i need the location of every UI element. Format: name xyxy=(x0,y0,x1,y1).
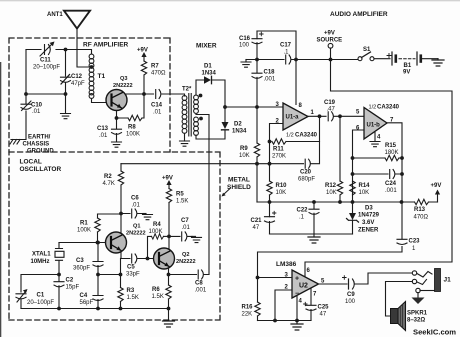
jack J1 body xyxy=(435,269,441,292)
chassis ground symbol xyxy=(10,140,21,145)
resistor R8 100K xyxy=(128,115,142,120)
wire antenna lead-in down to T1 tap xyxy=(77,29,92,68)
svg-text:360pF: 360pF xyxy=(73,266,90,272)
svg-text:C3: C3 xyxy=(76,258,84,264)
svg-text:S1: S1 xyxy=(363,47,371,53)
node T1 tap dot xyxy=(90,65,94,69)
svg-text:1.5K: 1.5K xyxy=(127,295,139,301)
svg-text:C9: C9 xyxy=(347,292,355,298)
svg-text:10K: 10K xyxy=(276,190,287,196)
svg-text:U2: U2 xyxy=(299,283,308,290)
svg-text:100K: 100K xyxy=(77,228,91,234)
wire detector output to U1-a pin3 xyxy=(225,106,283,108)
capacitor C3 360pF xyxy=(97,243,99,275)
transistor Q1 2N2222 xyxy=(106,232,127,253)
svg-text:3.6V: 3.6V xyxy=(362,220,374,226)
wire bottom return y234 xyxy=(270,233,353,235)
node junction dots RF left xyxy=(24,48,67,96)
svg-text:C16: C16 xyxy=(239,36,251,42)
svg-text:9V: 9V xyxy=(403,70,410,76)
resistor R14 10K xyxy=(350,181,355,195)
svg-text:D2: D2 xyxy=(234,122,242,128)
svg-text:D3: D3 xyxy=(365,206,373,212)
resistor R3 1.5K xyxy=(120,259,122,288)
svg-text:470Ω: 470Ω xyxy=(414,215,429,221)
capacitor C23 1 xyxy=(258,239,408,277)
inductor T1 winding xyxy=(89,54,94,98)
svg-text:+9V: +9V xyxy=(137,48,148,54)
op-amp U2 LM386 xyxy=(292,270,319,298)
resistor R15 180K xyxy=(353,157,386,159)
svg-text:C20: C20 xyxy=(300,170,312,176)
svg-text:+9V: +9V xyxy=(162,176,173,182)
svg-text:CHASSIS: CHASSIS xyxy=(23,142,50,148)
capacitor C11 (variable 20-100pF) xyxy=(40,42,55,57)
svg-text:C6: C6 xyxy=(131,196,139,202)
ground right of C7 xyxy=(192,235,196,237)
shield dashed box: local oscillator enclosure / metal shield xyxy=(9,152,220,320)
capacitor C24 .001 xyxy=(353,173,403,175)
resistor R6 1.5K xyxy=(166,285,171,299)
svg-text:10MHz: 10MHz xyxy=(31,259,50,265)
power +9V arrow above R7 xyxy=(137,48,148,62)
transistor Q3 2N2222 xyxy=(106,90,127,111)
svg-text:R2: R2 xyxy=(104,174,112,180)
ground jack sleeve xyxy=(412,293,425,304)
wire U1-a output pin1 xyxy=(308,115,364,117)
wire regulated bus y202 xyxy=(257,201,402,203)
capacitor C22 .1 xyxy=(309,202,319,234)
svg-text:OSCILLATOR: OSCILLATOR xyxy=(20,166,62,173)
zener diode D3 1N4729 xyxy=(347,202,359,234)
svg-text:20–100pF: 20–100pF xyxy=(27,300,54,306)
svg-text:ZENER: ZENER xyxy=(358,228,379,234)
svg-text:2N2222: 2N2222 xyxy=(126,231,146,237)
svg-text:.01: .01 xyxy=(32,109,41,115)
svg-text:C12: C12 xyxy=(71,74,83,80)
svg-text:.01: .01 xyxy=(153,110,162,116)
svg-text:Q3: Q3 xyxy=(120,76,127,82)
antenna ANT1 xyxy=(64,11,90,29)
svg-text:R1: R1 xyxy=(80,221,88,227)
svg-text:C11: C11 xyxy=(40,58,51,64)
svg-text:1/2: 1/2 xyxy=(369,105,377,111)
svg-text:2N2222: 2N2222 xyxy=(176,259,196,265)
wire U2 output pin5 xyxy=(319,283,348,285)
wire C3 bottom link to R3 xyxy=(98,274,121,276)
wire U2 pin2 xyxy=(275,290,292,321)
svg-text:R3: R3 xyxy=(127,288,135,294)
wire +9V rail y59.5 xyxy=(246,59,358,61)
resistor R5 1.5K xyxy=(166,189,171,203)
wire U1-b output pin7 down xyxy=(387,123,402,239)
svg-text:+: + xyxy=(295,276,299,283)
terminal +9V SOURCE xyxy=(317,31,343,60)
svg-text:SOURCE: SOURCE xyxy=(317,38,343,44)
capacitor C6 .01 branch xyxy=(121,213,143,215)
svg-text:100K: 100K xyxy=(149,229,163,235)
capacitor C1 (variable 20-100pF) xyxy=(16,275,59,309)
node T2 phasing dots xyxy=(199,94,203,121)
svg-text:1N34: 1N34 xyxy=(232,129,247,135)
resistor R4 100K bias xyxy=(148,236,152,258)
svg-text:2N2222: 2N2222 xyxy=(113,83,133,89)
svg-text:C5: C5 xyxy=(127,265,135,271)
crystal XTAL1 10MHz xyxy=(55,243,64,275)
transformer T2 core xyxy=(189,94,191,137)
svg-text:SHIELD: SHIELD xyxy=(227,184,251,191)
svg-text:100: 100 xyxy=(345,299,356,305)
capacitor C16 100 electrolytic xyxy=(252,31,263,60)
svg-text:C18: C18 xyxy=(264,70,276,76)
svg-text:8–32Ω: 8–32Ω xyxy=(407,318,425,324)
svg-text:LM386: LM386 xyxy=(276,261,297,268)
shield dashed box: RF amplifier enclosure xyxy=(9,38,170,320)
svg-text:.001: .001 xyxy=(264,77,276,83)
wire C16 top loop to pin8 drop xyxy=(257,31,296,105)
svg-text:C23: C23 xyxy=(409,239,421,245)
svg-text:10K: 10K xyxy=(326,190,337,196)
svg-text:R6: R6 xyxy=(152,287,160,293)
svg-text:1/2: 1/2 xyxy=(286,133,294,139)
capacitor C17 .1 xyxy=(286,55,291,64)
svg-text:1N34: 1N34 xyxy=(202,71,217,77)
wire top rail y49 C11 row xyxy=(26,50,92,55)
svg-text:R12: R12 xyxy=(325,183,337,189)
resistor R10 10K xyxy=(269,164,271,181)
svg-text:R4: R4 xyxy=(153,222,161,228)
svg-text:R8: R8 xyxy=(128,125,136,131)
svg-text:R14: R14 xyxy=(359,183,371,189)
diode D1 1N34 xyxy=(204,76,212,83)
wire C12 branch x65.5 xyxy=(65,50,67,114)
ground below C13 xyxy=(112,142,122,147)
wire left branch x26 down xyxy=(21,50,26,140)
svg-text:C8: C8 xyxy=(195,281,203,287)
wire y94 row xyxy=(26,93,66,95)
svg-text:.47: .47 xyxy=(327,107,336,113)
capacitor C18 .001 xyxy=(256,60,258,108)
svg-text:180K: 180K xyxy=(385,150,399,156)
wire U2 pin3 input xyxy=(258,277,293,279)
svg-text:C2: C2 xyxy=(66,278,74,284)
capacitor C5 33pF xyxy=(132,254,137,263)
svg-text:C17: C17 xyxy=(280,43,292,49)
wire LM386 bottom bus xyxy=(258,320,312,322)
wire LO bottom bus y308.5 xyxy=(21,308,169,310)
wire U1-b pin4 to ground xyxy=(374,133,376,142)
svg-text:T1: T1 xyxy=(98,73,106,80)
svg-text:R7: R7 xyxy=(151,64,159,70)
svg-text:.001: .001 xyxy=(195,288,207,294)
capacitor C9 100 electrolytic output xyxy=(343,276,355,289)
svg-text:270K: 270K xyxy=(272,154,286,160)
svg-text:CA3240: CA3240 xyxy=(295,133,318,139)
wire T2 secondary top to D1 xyxy=(196,80,204,95)
capacitor C14 xyxy=(156,90,161,99)
svg-text:D1: D1 xyxy=(204,64,212,70)
svg-text:47pF: 47pF xyxy=(71,81,85,87)
ground below C12 xyxy=(61,114,71,119)
resistor R16 22K xyxy=(257,278,259,303)
svg-text:R9: R9 xyxy=(240,146,248,152)
wire Q3 emitter node xyxy=(117,94,145,118)
svg-text:B1: B1 xyxy=(404,63,412,69)
resistor R1 100K xyxy=(95,218,100,232)
resistor R2 4.7K xyxy=(120,164,122,171)
svg-text:AUDIO AMPLIFIER: AUDIO AMPLIFIER xyxy=(330,11,388,18)
speaker SPKR1 xyxy=(391,302,406,331)
svg-text:C10: C10 xyxy=(31,103,43,109)
wire U2 pin4 xyxy=(296,296,298,321)
svg-text:47: 47 xyxy=(253,225,260,231)
svg-text:.1: .1 xyxy=(284,50,290,56)
capacitor C19 .47 xyxy=(328,112,333,121)
svg-text:.001: .001 xyxy=(385,188,397,194)
wire R1 top branch xyxy=(98,214,122,218)
svg-text:10K: 10K xyxy=(359,190,370,196)
capacitor C21 47 electrolytic xyxy=(265,202,276,234)
wire C9 to jack tip xyxy=(355,273,413,284)
ground below C22 xyxy=(313,234,315,237)
transistor Q2 2N2222 xyxy=(154,248,175,269)
capacitor C8 .001 output coupling xyxy=(169,274,210,276)
wire Q2 collector xyxy=(168,236,170,248)
ground T2 primary xyxy=(180,141,190,146)
svg-text:+9V: +9V xyxy=(324,31,335,37)
wire jack ring to speaker xyxy=(386,282,413,317)
capacitor C10 xyxy=(21,104,31,109)
svg-text:1N4729: 1N4729 xyxy=(358,213,380,219)
capacitor C4 56pF xyxy=(97,275,99,309)
svg-text:R11: R11 xyxy=(273,147,284,153)
svg-text:R15: R15 xyxy=(385,143,397,149)
svg-text:C25: C25 xyxy=(318,305,330,311)
svg-text:R5: R5 xyxy=(176,192,184,198)
svg-text:C13: C13 xyxy=(97,126,109,132)
resistor R12 10K xyxy=(339,116,341,181)
svg-text:.01: .01 xyxy=(132,203,141,209)
ground battery negative xyxy=(432,60,444,66)
wire T2 center tap to LO injection line xyxy=(196,115,209,275)
svg-text:METAL: METAL xyxy=(228,177,250,184)
svg-text:+9V: +9V xyxy=(431,183,442,189)
wire Q1 emitter row y258.5 xyxy=(121,251,154,259)
svg-text:20–100pF: 20–100pF xyxy=(33,65,60,71)
power +9V arrow above R5 xyxy=(162,176,173,189)
svg-text:C1: C1 xyxy=(37,293,45,299)
svg-text:C4: C4 xyxy=(80,293,88,299)
capacitor C13 xyxy=(116,118,118,142)
power +9V arrow right xyxy=(431,183,442,202)
svg-text:56pF: 56pF xyxy=(80,300,94,306)
battery B1 9V xyxy=(387,52,438,65)
svg-text:Q2: Q2 xyxy=(182,252,189,258)
capacitor C25 47 bypass xyxy=(304,288,316,321)
scan top edge artifact xyxy=(0,0,460,2)
svg-text:U1-b: U1-b xyxy=(367,123,381,129)
wire U1-a pin2 xyxy=(270,124,284,164)
svg-text:C19: C19 xyxy=(324,100,336,106)
label METAL SHIELD with arrow xyxy=(222,177,252,197)
svg-text:22K: 22K xyxy=(242,312,253,318)
svg-text:.01: .01 xyxy=(99,133,108,139)
svg-text:U1-a: U1-a xyxy=(286,115,300,121)
switch S1 xyxy=(358,47,374,61)
svg-text:15pF: 15pF xyxy=(66,285,80,291)
ground right of C6 xyxy=(143,213,146,215)
ground at C16 xyxy=(245,60,247,63)
capacitor C12 47pF xyxy=(61,77,71,82)
svg-text:RF AMPLIFIER: RF AMPLIFIER xyxy=(83,42,129,49)
svg-text:CA3240: CA3240 xyxy=(377,105,400,111)
svg-text:C21: C21 xyxy=(251,218,263,224)
wire Q3 collector row y94 to C14 xyxy=(126,94,185,96)
svg-text:C14: C14 xyxy=(151,103,163,109)
svg-text:ANT1: ANT1 xyxy=(47,12,63,18)
svg-text:470Ω: 470Ω xyxy=(151,71,166,77)
svg-text:T2*: T2* xyxy=(182,87,192,93)
transformer T2 secondary winding (two halves) xyxy=(194,95,199,135)
svg-text:C24: C24 xyxy=(385,181,397,187)
svg-text:C7: C7 xyxy=(181,218,189,224)
resistor R11 270K feedback xyxy=(272,139,286,144)
svg-text:SPKR1: SPKR1 xyxy=(407,311,428,317)
op-amp U1-b xyxy=(364,108,387,140)
svg-text:100: 100 xyxy=(239,43,250,49)
ground LM386 xyxy=(296,321,298,325)
svg-text:J1: J1 xyxy=(444,277,452,284)
resistor R9 10K xyxy=(256,107,258,143)
op-amp U1-a xyxy=(283,103,308,130)
jack J1 contacts xyxy=(412,271,434,293)
wire T2 primary bottom to ground xyxy=(184,134,186,142)
svg-text:MIXER: MIXER xyxy=(196,43,217,50)
wire U1-b pin6 loop xyxy=(353,130,365,202)
svg-text:33pF: 33pF xyxy=(126,272,140,278)
svg-text:EARTH/: EARTH/ xyxy=(28,135,51,141)
svg-text:4.7K: 4.7K xyxy=(103,181,115,187)
transformer T2 primary winding xyxy=(182,96,187,134)
wire bias rail y163.7 from R2 to C20 xyxy=(121,163,270,165)
svg-text:47: 47 xyxy=(320,312,327,318)
svg-text:Q1: Q1 xyxy=(133,224,140,230)
scan left edge artifact xyxy=(0,62,1,337)
svg-text:C22: C22 xyxy=(297,208,309,214)
resistor R13 470 xyxy=(415,199,429,204)
svg-text:100K: 100K xyxy=(126,132,140,138)
capacitor C2 15pF xyxy=(58,275,60,309)
wire T1 bottom to Q3 base xyxy=(92,99,107,103)
ground LO bus xyxy=(163,321,175,327)
svg-text:GROUND: GROUND xyxy=(27,149,54,155)
resistor R7 470 xyxy=(141,61,146,75)
svg-text:LOCAL: LOCAL xyxy=(20,159,42,166)
svg-text:R10: R10 xyxy=(276,183,288,189)
svg-text:SeekIC.com: SeekIC.com xyxy=(413,328,456,337)
svg-text:.1: .1 xyxy=(299,215,305,221)
diode D2 1N34 xyxy=(222,122,229,130)
svg-text:XTAL1: XTAL1 xyxy=(32,252,51,258)
svg-text:680pF: 680pF xyxy=(298,177,315,183)
capacitor C20 680pF feedback xyxy=(270,142,320,164)
svg-text:.01: .01 xyxy=(182,225,191,231)
wire D1 to detector node and down xyxy=(196,80,225,139)
wire S1 to battery xyxy=(374,58,390,60)
wire Q1 base row y242.5 xyxy=(59,242,106,244)
svg-text:R13: R13 xyxy=(414,207,426,213)
capacitor C7 .01 branch xyxy=(169,235,192,237)
svg-text:10K: 10K xyxy=(239,153,250,159)
wire +9V source to audio amp right rail xyxy=(305,60,452,278)
svg-text:R16: R16 xyxy=(242,305,254,311)
svg-text:1.5K: 1.5K xyxy=(152,294,164,300)
wire Q2 emitter down xyxy=(168,269,170,286)
svg-text:1.5K: 1.5K xyxy=(176,199,188,205)
